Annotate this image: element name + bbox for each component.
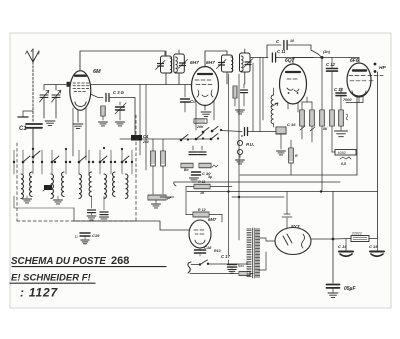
power transformer primary: [247, 229, 251, 277]
resistor R12: [330, 110, 335, 126]
ground under R1 C2: [99, 122, 108, 126]
band switch lever: [51, 161, 54, 164]
wire V1 top cap to T1: [80, 51, 165, 70]
tube V1 grids: [73, 83, 89, 91]
svg-text:C4: C4: [143, 134, 149, 139]
ground coil bank 4: [100, 217, 109, 221]
resistor R2: [151, 151, 156, 166]
ground under V1: [73, 124, 83, 128]
svg-text:C1: C1: [19, 126, 27, 132]
svg-text:8K: 8K: [323, 127, 328, 131]
wire heater bus y191: [187, 191, 333, 193]
svg-text:20K: 20K: [196, 125, 204, 129]
resistor R6 box: [199, 163, 211, 168]
tube V3 diode plates: [287, 79, 299, 91]
wire V4 cathode row: [346, 102, 363, 104]
svg-text:4052: 4052: [338, 151, 346, 155]
tube V4 6F6 envelope: [347, 63, 371, 97]
capacitor C16 box: [276, 127, 286, 134]
wire secondary to V5: [259, 238, 275, 241]
tube V1 cathode: [75, 102, 86, 107]
ground coil bank 3: [87, 216, 96, 220]
osc switch S2: [195, 138, 198, 141]
power transformer core: [253, 228, 255, 278]
capacitor C2 blob: [44, 185, 52, 190]
ground coil bank 1: [26, 196, 28, 198]
tuning coil L8: [104, 174, 106, 198]
wire transformer top leads: [228, 260, 230, 264]
padder cap bank: [88, 210, 96, 213]
capacitor C21 bottom: [80, 233, 90, 236]
resistor R15 box: [193, 212, 209, 217]
wire bus x140: [139, 85, 141, 156]
svg-text:R13: R13: [214, 249, 221, 253]
band switch lever: [78, 161, 81, 164]
capacitor C13: [336, 93, 346, 96]
svg-text:P.U.: P.U.: [246, 142, 254, 147]
wire node to V4: [322, 58, 359, 63]
tube V2 anode bar: [198, 73, 212, 75]
capacitor Co: [184, 85, 186, 98]
antenna switch lever: [32, 156, 35, 159]
svg-text:5Y3: 5Y3: [291, 224, 300, 230]
shield box dashed: [16, 143, 18, 221]
ground under trimmers: [45, 121, 55, 125]
svg-text:268: 268: [111, 255, 129, 267]
capacitor C12: [331, 58, 333, 69]
wire V6 pins: [199, 253, 201, 256]
capacitor C5: [189, 152, 197, 155]
PU switch row: [202, 131, 205, 134]
svg-text:6M7: 6M7: [208, 217, 217, 222]
tuning coil L4: [51, 174, 53, 198]
wires switch to coils: [13, 150, 15, 174]
IFT T2 primary unit: [222, 55, 233, 72]
svg-text:6H7: 6H7: [206, 60, 215, 66]
mains wire bottom: [190, 273, 238, 275]
scan page edge frame: [10, 33, 391, 308]
wire V1 pin down x86: [85, 108, 87, 160]
decoupling condenser block: [148, 195, 166, 200]
band switch lever: [121, 161, 124, 164]
wire heater drop x228: [228, 192, 230, 256]
ground under C20: [190, 178, 199, 182]
wire bus x239: [238, 74, 240, 199]
resistor R1: [101, 106, 105, 116]
ground PU: [236, 160, 245, 164]
svg-text:C 15: C 15: [369, 244, 378, 249]
wire V3 pin down: [297, 103, 299, 112]
filter choke 22022: [351, 236, 369, 242]
resistor R9: [300, 110, 305, 126]
speaker terminal HP: [374, 63, 377, 66]
trimmer capacitor CV2: [52, 95, 60, 97]
svg-text:11: 11: [74, 235, 78, 239]
ground mid: [236, 110, 245, 114]
svg-text:05µF: 05µF: [344, 286, 356, 292]
tuning coil L6: [79, 174, 81, 198]
tube V4 grid dashes: [349, 76, 383, 81]
wire bus x357: [356, 97, 358, 175]
tube V1 6M7 envelope: [70, 71, 91, 111]
wire bus yA: [174, 182, 176, 186]
capacitor C11: [272, 53, 275, 62]
wire HP down: [377, 72, 379, 239]
wire padder row: [120, 138, 131, 140]
capacitor C4 padder: [131, 135, 142, 141]
wire V3 cathode down: [287, 103, 289, 109]
capacitor C15: [377, 239, 379, 252]
RF choke L1: [271, 95, 273, 124]
svg-text:6Q7: 6Q7: [285, 58, 295, 64]
wire T2 drop x253: [252, 63, 254, 132]
tube V4 anode bar: [353, 69, 366, 71]
wire heater drop x239: [238, 197, 240, 240]
svg-text:6H7: 6H7: [190, 60, 199, 66]
tube V1 grid cap pin: [67, 82, 70, 87]
power transformer secondary: [255, 229, 259, 277]
tuning coil L10: [126, 174, 128, 198]
wire bus x153: [152, 139, 154, 151]
svg-text:: 1127: : 1127: [20, 286, 58, 300]
resistor R3: [161, 151, 166, 166]
wire V1 cathode down: [77, 110, 79, 122]
ground under V2: [201, 112, 211, 116]
wire grid V1: [44, 84, 66, 86]
svg-text:C18: C18: [204, 245, 212, 250]
osc switch S1: [180, 139, 183, 142]
wire bus yB bracket: [185, 187, 187, 215]
tuning coil L7: [89, 172, 91, 196]
svg-text:C 12: C 12: [326, 62, 336, 67]
resistor R4 box: [194, 119, 207, 123]
tube V1 anode bar: [75, 74, 86, 76]
wire V5 plate top: [286, 192, 288, 215]
wire B+ down to C19: [332, 192, 334, 284]
svg-text:SCHEMA DU POSTE: SCHEMA DU POSTE: [11, 256, 106, 267]
wire heater bus right: [333, 191, 378, 193]
wire screen bus y84: [91, 84, 193, 86]
wire node down to R11: [321, 58, 323, 111]
tube V4 cathode arc: [352, 91, 366, 96]
mains switch S4: [199, 263, 201, 265]
svg-text:R 11: R 11: [198, 180, 205, 184]
svg-text:C 14: C 14: [338, 244, 347, 249]
svg-text:6F6: 6F6: [350, 58, 359, 64]
padder cap bank 2: [100, 212, 108, 215]
resistor R10: [310, 110, 315, 126]
tube V2 grids: [195, 80, 212, 85]
capacitor C7 series: [221, 131, 242, 132]
svg-text:C19: C19: [92, 233, 100, 238]
svg-text:E! SCHNEIDER F!: E! SCHNEIDER F!: [11, 273, 91, 284]
wire AVC drop x260: [259, 58, 261, 132]
svg-text:C 17: C 17: [221, 254, 231, 259]
capacitor C2 with arrow: [116, 107, 125, 110]
antenna coupling plate: [18, 116, 28, 118]
capacitor C1: [26, 124, 42, 128]
wire AVC top: [250, 57, 268, 59]
svg-text:R 12: R 12: [198, 208, 206, 212]
capacitor C10: [267, 45, 281, 58]
resistor R14 box: [194, 184, 210, 189]
svg-text:22022: 22022: [352, 232, 362, 236]
capacitor C3: [91, 94, 104, 98]
tube V6 envelope: [189, 220, 211, 248]
wire bus yB: [210, 186, 232, 188]
svg-text:6M: 6M: [93, 69, 101, 75]
ground under C16: [277, 151, 286, 155]
tube V3 grid top wire: [293, 58, 322, 65]
wire V2 pin right: [213, 101, 215, 120]
ground under R13: [340, 126, 342, 130]
ground under block: [155, 200, 157, 203]
IFT T1 secondary unit: [174, 54, 185, 73]
trimmer capacitor CV1: [40, 95, 48, 97]
svg-text:µF: µF: [166, 196, 172, 200]
IFT T1 primary unit: [161, 56, 172, 73]
wire V2 cathode: [204, 105, 206, 110]
capacitor C6: [198, 152, 206, 155]
tube V2 6H7 envelope: [192, 67, 219, 106]
volume potentiometer 4052 box: [335, 150, 356, 156]
wire AVC drop x263: [262, 58, 264, 121]
wire heater bus y197: [160, 196, 174, 198]
wire HT bus y175: [240, 174, 357, 176]
svg-text:3µ: 3µ: [208, 175, 212, 179]
antenna A1: [32, 62, 34, 122]
svg-text:C 11: C 11: [277, 49, 286, 54]
svg-text:C 13: C 13: [334, 87, 344, 92]
capacitor C14: [345, 239, 347, 252]
band switch lever: [22, 161, 25, 164]
IFT T2 secondary unit: [240, 53, 251, 72]
node junction N1: [321, 56, 324, 59]
resistor R7: [233, 86, 237, 98]
svg-text:7000: 7000: [343, 98, 352, 102]
svg-text:Bo: Bo: [184, 168, 189, 172]
resistor R13: [339, 110, 344, 126]
svg-text:10: 10: [290, 39, 294, 43]
wire V2 pin left: [195, 103, 197, 130]
tuning coil L2: [21, 174, 23, 198]
band switch lever: [99, 161, 102, 164]
wire V1 heater down: [72, 108, 74, 156]
mains plug squiggle: [188, 262, 191, 273]
capacitor C20: [192, 172, 201, 175]
tube V6 internals: [194, 230, 204, 234]
tuning coil L5: [62, 172, 64, 196]
junction dots above switches: [65, 148, 67, 150]
tube V3 anode bar: [286, 71, 300, 73]
capacitor C18: [195, 250, 206, 253]
svg-text:HP: HP: [379, 65, 386, 71]
wire PU ground: [239, 155, 241, 158]
tube V3 6Q7 envelope: [280, 64, 307, 104]
wire V2 top to T2: [205, 51, 227, 67]
tuning coil L9: [113, 172, 115, 196]
wire R9 R10 top: [302, 101, 312, 103]
wire coil bottoms: [14, 196, 74, 208]
wire V5 output: [311, 238, 333, 240]
band switch contacts: [13, 161, 15, 163]
pickup terminal PU1: [237, 140, 242, 145]
capacitor C8: [241, 90, 248, 93]
wire bus x146: [145, 85, 147, 171]
wire antenna to band switch: [32, 128, 34, 148]
tube V5 filament: [283, 234, 292, 245]
svg-text:C 16: C 16: [287, 122, 296, 127]
resistor R5 box: [181, 163, 193, 168]
osc switch S3: [210, 138, 213, 141]
mains wire top: [191, 264, 199, 266]
svg-text:Nao: Nao: [238, 264, 244, 268]
wire bus x163: [162, 139, 164, 151]
svg-text:250: 250: [142, 140, 149, 144]
wire V4 cathode: [358, 97, 360, 103]
wire long AF y221 230: [74, 221, 189, 230]
tube V5 5Y3 envelope: [275, 228, 311, 255]
wire C12 down to R12: [331, 71, 333, 110]
svg-text:(3n): (3n): [323, 50, 331, 54]
capacitor C19: [327, 285, 340, 288]
pickup terminal PU2: [237, 149, 242, 154]
tuning coil L3: [30, 172, 32, 196]
resistor R11: [320, 110, 325, 126]
tube V2 beam plates: [197, 90, 213, 97]
svg-text:R: R: [295, 154, 298, 158]
resistor R8: [289, 148, 294, 163]
svg-text:C 3 G: C 3 G: [113, 90, 125, 95]
wire bus x228: [228, 74, 230, 190]
svg-text:Co: Co: [190, 99, 196, 104]
paper tint: [10, 33, 391, 308]
fuse F1: [239, 272, 250, 276]
ground coil bank 2: [57, 196, 59, 199]
